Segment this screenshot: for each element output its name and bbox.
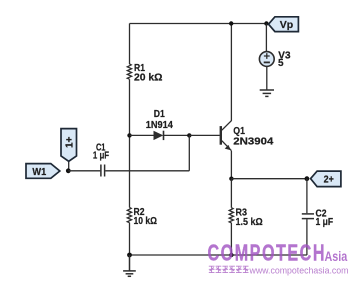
node V3 / top rail [264,21,268,25]
svg-text:D1: D1 [154,109,165,120]
wire emitter column [230,151,232,179]
node A (R1/R2 divider, diode anode) [127,133,131,137]
node ground rail left [127,253,132,258]
svg-text:Vp: Vp [280,19,293,31]
power tag Vp [269,17,299,32]
wire collector column [230,24,232,121]
watermark COMPOTECH Asia [208,241,349,276]
ground main [123,255,136,276]
ground below V3 [260,90,274,96]
wire W1 node to C1 [68,170,100,172]
resistor R1 [127,63,162,83]
node B (base node, diode cathode) [187,133,191,137]
svg-text:1N914: 1N914 [146,120,174,131]
node emitter / output [229,177,233,181]
scope tag 2+ [311,171,341,187]
svg-text:Q1: Q1 [233,126,245,137]
svg-text:W1: W1 [32,167,46,178]
svg-text:1 μF: 1 μF [316,217,334,228]
awg tag W1 [26,164,60,179]
wire base (node B to Q1 base) [189,134,220,136]
capacitor C1 [93,143,109,177]
svg-text:1+: 1+ [64,136,75,148]
node output / C2 [305,176,310,181]
node R3 / ground rail [229,253,233,257]
wire left column middle (R1 to R2) [129,79,131,207]
wire C1 to feedback node [105,170,189,172]
wire left column lower (R2 to ground rail) [129,223,131,255]
svg-text:5: 5 [278,58,284,69]
resistor R3 [229,179,263,256]
wire output (emitter to 2+ tag) [231,178,307,180]
transistor Q1 [221,121,274,151]
svg-text:2N3904: 2N3904 [233,136,273,147]
wire feedback down from node B [188,135,190,170]
svg-text:10 kΩ: 10 kΩ [134,216,158,227]
wire top rail Vp [130,23,269,25]
node W1 input [66,168,71,173]
diode D1 [130,109,190,140]
svg-text:Asia: Asia [325,249,348,264]
wire bottom ground rail [130,254,307,256]
resistor R2 [127,207,157,227]
svg-text:2+: 2+ [324,173,334,185]
voltage source V3 [259,24,291,90]
capacitor C2 [302,179,333,255]
svg-text:20 kΩ: 20 kΩ [134,72,163,83]
svg-text:1 μF: 1 μF [93,151,109,162]
node collector / top rail [229,21,233,25]
wire left column upper (Vp to R1) [129,24,131,65]
svg-text:COMPOTECH: COMPOTECH [208,241,327,267]
svg-text:1.5 kΩ: 1.5 kΩ [236,217,263,228]
svg-text:www.compotechasia.com: www.compotechasia.com [249,265,349,275]
scope tag 1+ [61,129,77,169]
